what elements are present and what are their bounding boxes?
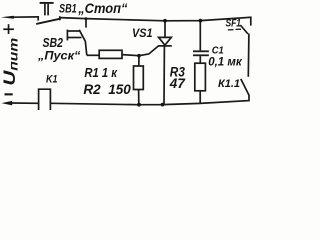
svg-text:„Пуск“: „Пуск“ [37, 49, 81, 63]
svg-text:R1 1 к: R1 1 к [84, 65, 117, 80]
svg-text:К1.1: К1.1 [218, 78, 240, 90]
svg-text:SB1: SB1 [59, 2, 77, 15]
svg-text:47: 47 [169, 76, 186, 91]
svg-text:„Стоп“: „Стоп“ [77, 1, 127, 16]
svg-text:0,1 мк: 0,1 мк [208, 54, 242, 68]
svg-text:R2 150: R2 150 [83, 82, 131, 97]
svg-text:VS1: VS1 [132, 26, 153, 40]
svg-text:K1: K1 [46, 74, 58, 86]
svg-text:SF1: SF1 [226, 17, 242, 29]
